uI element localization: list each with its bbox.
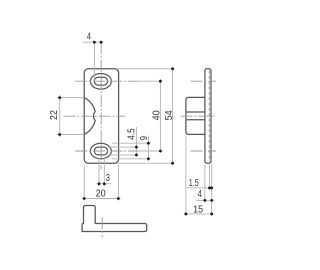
- svg-text:9: 9: [139, 136, 150, 141]
- svg-text:40: 40: [152, 110, 163, 120]
- svg-text:22: 22: [49, 110, 60, 120]
- svg-text:54: 54: [164, 110, 175, 120]
- svg-text:4.5: 4.5: [127, 128, 138, 140]
- svg-text:3: 3: [106, 173, 111, 184]
- svg-text:15: 15: [193, 205, 203, 216]
- svg-text:4: 4: [198, 189, 203, 200]
- svg-text:4: 4: [87, 32, 92, 43]
- svg-text:20: 20: [96, 189, 106, 200]
- svg-text:1.5: 1.5: [189, 178, 199, 189]
